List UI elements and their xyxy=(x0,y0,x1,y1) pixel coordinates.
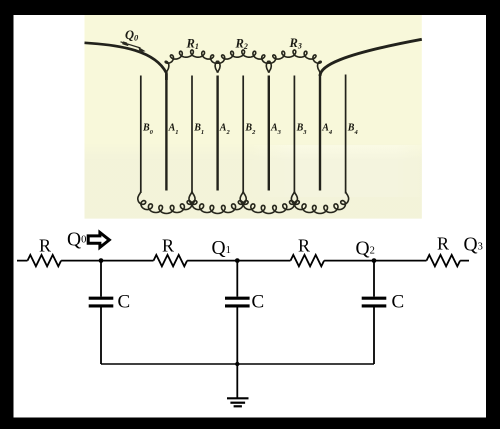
arrow Q0 flow direction xyxy=(121,42,141,48)
ground xyxy=(227,364,249,406)
node Q0 junction dot xyxy=(99,258,104,263)
capacitor C3 xyxy=(362,261,387,364)
svg-text:R: R xyxy=(298,236,310,256)
capacitor C1 xyxy=(89,261,114,364)
coil bottom B0-B1 xyxy=(138,192,195,214)
junction bottom rail dot xyxy=(235,362,239,366)
wire A4 output curve (heat flow out) xyxy=(320,39,422,76)
plate B4 xyxy=(345,75,347,194)
coil bottom B3-B4 xyxy=(291,192,348,214)
plate A3 xyxy=(268,76,270,191)
capacitor C2 xyxy=(225,261,250,364)
resistor R1 xyxy=(28,255,62,266)
svg-text:C: C xyxy=(252,292,265,313)
arrow input Q0 xyxy=(88,233,109,248)
plate B2 xyxy=(242,76,244,194)
coil R3 xyxy=(268,50,322,73)
resistor R3 xyxy=(291,255,325,266)
node Q1 junction dot xyxy=(235,258,240,263)
wire main horizontal rail xyxy=(17,260,469,262)
plate B3 xyxy=(293,76,295,194)
input curve (heat flow in) xyxy=(85,43,167,80)
plate A1 xyxy=(165,74,167,191)
svg-text:C: C xyxy=(118,292,131,313)
resistor R2 xyxy=(154,255,188,266)
wire bottom rail xyxy=(101,363,374,365)
plate A4 xyxy=(319,74,321,191)
svg-text:R: R xyxy=(437,234,449,254)
svg-text:R: R xyxy=(162,236,174,256)
node Q2 junction dot xyxy=(372,258,377,263)
plate A2 xyxy=(216,76,218,191)
scanned figure background xyxy=(85,15,422,219)
coil bottom B1-B2 xyxy=(189,192,246,214)
coil R1 xyxy=(165,50,219,73)
coil bottom B2-B3 xyxy=(240,192,297,214)
plate B0 xyxy=(140,76,142,194)
svg-text:C: C xyxy=(392,292,405,313)
plate B1 xyxy=(191,76,193,194)
coil R2 xyxy=(216,50,270,73)
svg-text:R: R xyxy=(39,236,51,256)
resistor R4 xyxy=(427,255,461,266)
